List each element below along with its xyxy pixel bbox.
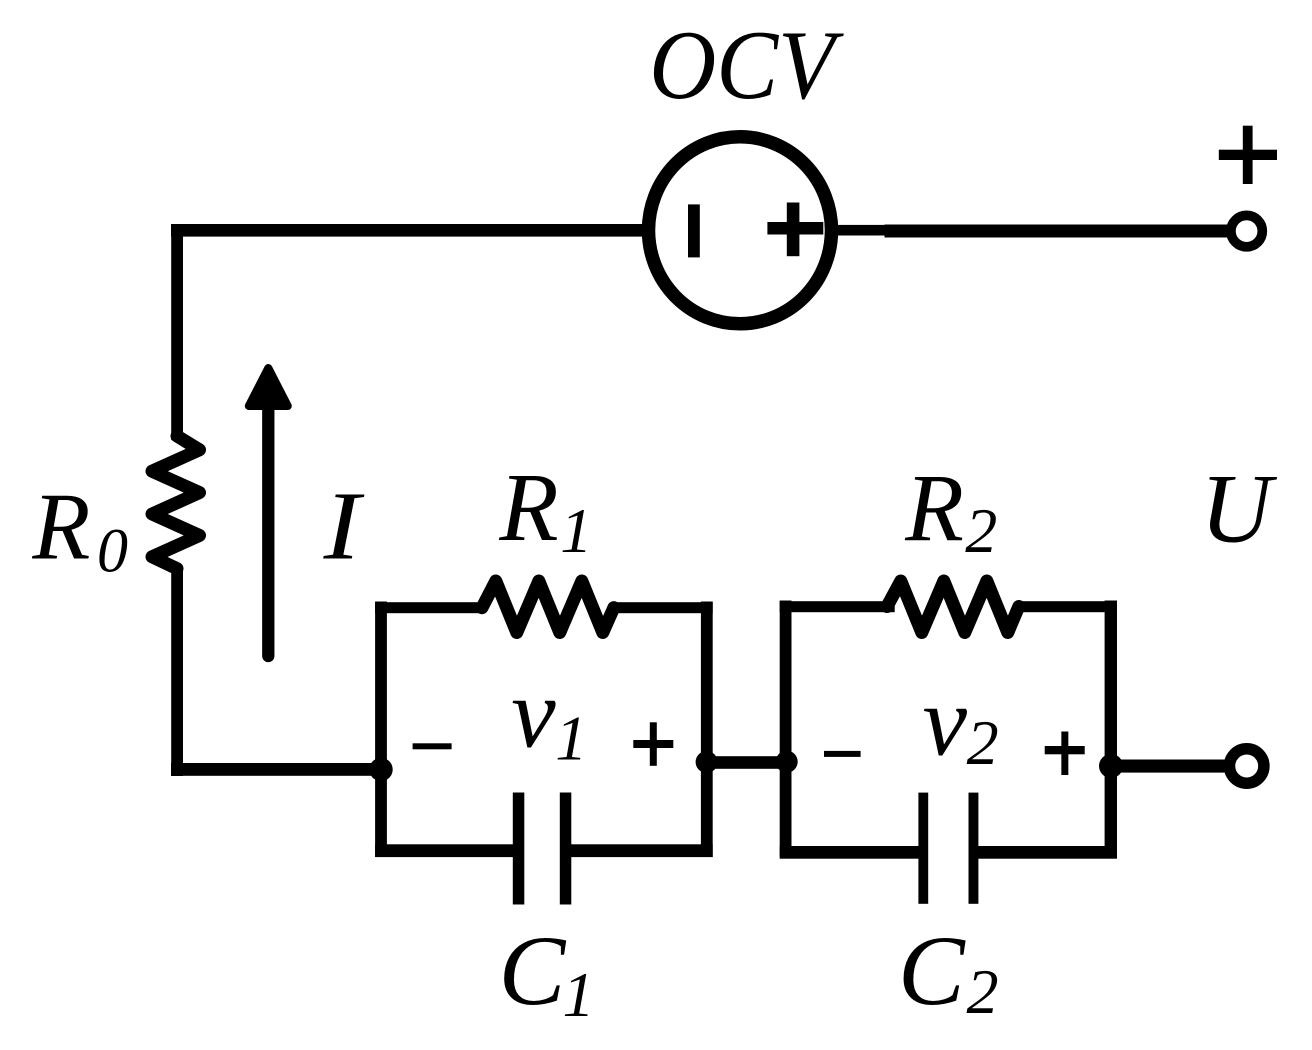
resistor R1 zigzag xyxy=(482,581,614,633)
voltage source OCV circle U0 xyxy=(649,137,832,324)
RC block 1: right edge wire xyxy=(701,602,713,858)
svg-text:2: 2 xyxy=(967,956,999,1027)
svg-text:2: 2 xyxy=(967,707,999,778)
resistor R0 zigzag xyxy=(152,436,200,569)
label v1 polarity plus xyxy=(633,740,673,748)
svg-text:0: 0 xyxy=(97,517,128,585)
wire connecting RC block 1 to RC block 2 xyxy=(700,756,792,769)
RC block 2: top edge left segment xyxy=(780,601,895,612)
positive terminal node (open circle, top right) xyxy=(1231,215,1262,246)
RC block 1: top edge right segment xyxy=(612,602,713,613)
svg-text:R: R xyxy=(904,454,964,561)
svg-text:1: 1 xyxy=(563,959,595,1030)
RC block 2: top edge right segment xyxy=(1017,601,1117,612)
svg-text:R: R xyxy=(31,474,90,580)
label v1 polarity minus xyxy=(413,743,452,749)
svg-text:1: 1 xyxy=(560,495,592,566)
RC block 1: top edge left segment xyxy=(375,602,485,613)
RC block 2: bottom edge left segment xyxy=(780,846,924,859)
label v2 polarity minus xyxy=(824,751,861,757)
current arrow I shaft xyxy=(262,404,274,656)
wire left vertical upper segment xyxy=(171,224,183,440)
RC block 1: bottom edge left segment xyxy=(375,844,519,857)
output terminal node (open circle, bottom right) xyxy=(1230,749,1264,783)
svg-text:1: 1 xyxy=(555,703,587,774)
RC block 1: left edge wire xyxy=(375,602,387,858)
capacitor C1 right plate xyxy=(560,793,572,905)
resistor R2 zigzag xyxy=(887,581,1019,633)
RC block 1: bottom edge right segment xyxy=(566,844,713,857)
node D junction dot (right of RC block 2) xyxy=(1099,754,1123,778)
wire bottom-left horizontal to node A xyxy=(171,763,383,776)
wire from node D to output terminal xyxy=(1111,760,1230,773)
node B junction dot (right of RC block 1) xyxy=(696,751,718,773)
capacitor C1 left plate xyxy=(513,793,525,905)
svg-text:C: C xyxy=(499,915,567,1026)
svg-text:U: U xyxy=(1200,454,1277,563)
wire from source to positive terminal (thin segment) xyxy=(830,225,885,236)
RC block 2: bottom edge right segment xyxy=(973,846,1117,859)
RC block 2: left edge wire xyxy=(780,601,792,858)
svg-text:2: 2 xyxy=(965,495,997,566)
capacitor C2 right plate xyxy=(969,793,979,904)
plus sign above positive terminal xyxy=(1243,126,1253,184)
node C junction dot (left of RC block 2) xyxy=(776,751,798,773)
svg-text:C: C xyxy=(898,915,966,1026)
capacitor C2 left plate xyxy=(918,793,928,904)
svg-text:R: R xyxy=(498,454,558,561)
wire from source to positive terminal (thick segment) xyxy=(885,225,1232,238)
RC block 2: right edge wire xyxy=(1105,601,1117,858)
wire top-left horizontal from left branch to OCV source xyxy=(171,224,651,237)
svg-text:v: v xyxy=(511,657,556,768)
node A junction dot (left of RC block 1) xyxy=(369,758,392,781)
wire left vertical lower segment below R0 xyxy=(171,566,183,776)
svg-text:OCV: OCV xyxy=(649,9,844,119)
minus terminal bar inside source xyxy=(688,204,700,257)
svg-text:I: I xyxy=(323,473,365,580)
current arrow I head xyxy=(249,368,288,406)
svg-text:v: v xyxy=(923,665,968,776)
plus symbol inside source xyxy=(767,222,823,235)
label v2 polarity plus xyxy=(1045,746,1085,754)
